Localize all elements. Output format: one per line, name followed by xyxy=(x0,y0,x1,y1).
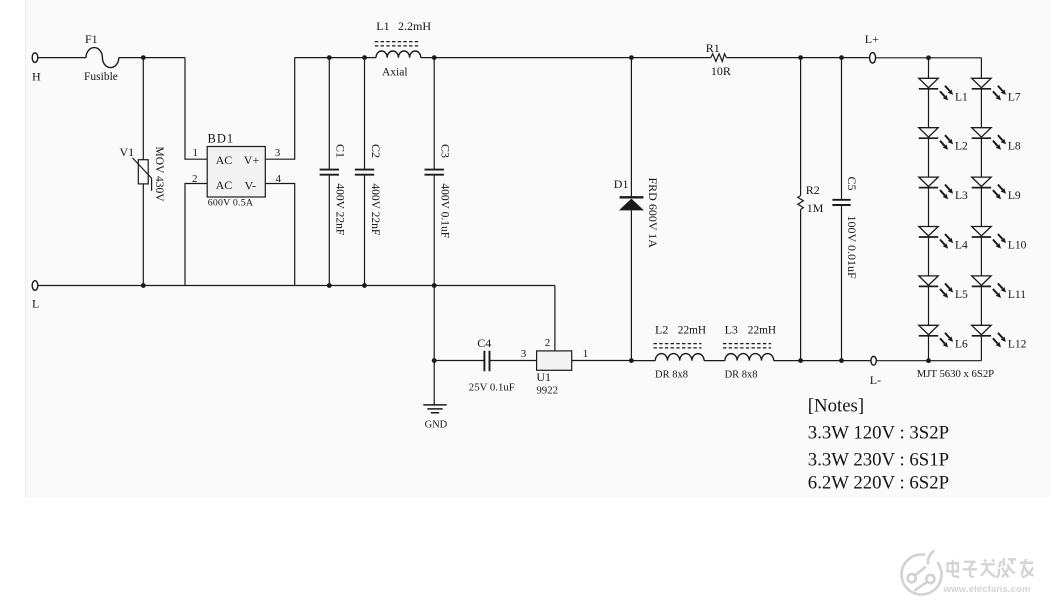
svg-text:L1: L1 xyxy=(376,19,389,33)
terminal L- xyxy=(871,356,876,365)
svg-text:L2: L2 xyxy=(955,141,968,153)
wire BD1 pin2 xyxy=(185,184,207,286)
wire U1 pin1 to mid rail xyxy=(572,360,632,362)
svg-text:22mH: 22mH xyxy=(748,325,776,337)
svg-text:F1: F1 xyxy=(85,32,98,46)
wire C3 junction down to GND rail xyxy=(433,286,435,405)
svg-text:10R: 10R xyxy=(711,64,731,78)
L1 dashed marks xyxy=(375,42,421,46)
wire L2 to L3 xyxy=(704,360,725,362)
svg-text:L4: L4 xyxy=(955,240,968,252)
watermark text you xyxy=(1020,559,1034,578)
junction dot R2 top xyxy=(798,55,803,60)
varistor V1 diagonal xyxy=(133,158,152,191)
svg-text:6.2W 220V : 6S2P: 6.2W 220V : 6S2P xyxy=(808,473,949,494)
top rail mid xyxy=(421,57,711,59)
svg-text:L10: L10 xyxy=(1008,240,1027,252)
terminal H xyxy=(32,53,38,63)
watermark logo elecfans xyxy=(902,551,942,595)
LED L10 xyxy=(972,227,1006,249)
U1 pin2 vertical wire xyxy=(554,286,556,351)
terminal L (neutral) xyxy=(32,281,38,291)
LED L1 xyxy=(919,78,953,100)
LED L2 xyxy=(919,128,953,150)
capacitor C2 plates xyxy=(355,170,374,175)
svg-text:L+: L+ xyxy=(865,32,879,46)
bridge rectifier BD1 body xyxy=(207,147,265,198)
capacitor C5 wire bottom xyxy=(841,206,843,361)
svg-text:D1: D1 xyxy=(614,177,629,191)
svg-text:400V 0.1uF: 400V 0.1uF xyxy=(439,183,451,238)
wire L+ to LED columns xyxy=(876,57,982,59)
LED column 2 wire xyxy=(980,58,982,361)
capacitor C1 wires xyxy=(328,58,330,286)
svg-text:3.3W 230V : 6S1P: 3.3W 230V : 6S1P xyxy=(808,450,949,471)
svg-text:L3: L3 xyxy=(725,323,738,337)
capacitor C5 wire top xyxy=(841,58,843,199)
svg-text:3.3W 120V : 3S2P: 3.3W 120V : 3S2P xyxy=(808,423,949,444)
svg-text:Axial: Axial xyxy=(382,67,408,79)
diode D1 wire bottom xyxy=(630,210,632,360)
svg-text:22mH: 22mH xyxy=(678,325,706,337)
wire V1 top xyxy=(142,58,144,160)
resistor R1 xyxy=(711,54,727,62)
LED L12 xyxy=(972,325,1006,347)
junction dot D1 top xyxy=(629,55,634,60)
capacitor C3 plates xyxy=(425,170,444,175)
ground symbol xyxy=(423,405,446,413)
inductor L1 xyxy=(376,51,421,58)
svg-text:FRD 600V 1A: FRD 600V 1A xyxy=(646,178,660,249)
svg-text:R2: R2 xyxy=(806,183,820,197)
wire down to BD1 pin1 xyxy=(185,58,207,160)
LED L8 xyxy=(972,128,1006,150)
junction dot C3 top xyxy=(432,55,437,60)
svg-text:4: 4 xyxy=(276,173,282,185)
svg-text:L8: L8 xyxy=(1008,141,1021,153)
resistor R2 wire bottom xyxy=(800,210,802,361)
svg-text:C1: C1 xyxy=(334,144,348,158)
svg-text:2.2mH: 2.2mH xyxy=(398,19,431,33)
L3 dashed marks xyxy=(723,344,771,348)
wire BD1 pin3 to top rail xyxy=(265,58,294,160)
resistor R2 zigzag xyxy=(798,196,804,210)
LED L4 xyxy=(919,227,953,249)
LED L9 xyxy=(972,177,1006,199)
junction dot C3 bottom rail xyxy=(432,283,437,288)
watermark text dian (electron) xyxy=(948,558,1034,578)
svg-text:L9: L9 xyxy=(1008,190,1021,202)
left rail bottom xyxy=(38,285,555,287)
svg-text:V-: V- xyxy=(245,178,257,192)
capacitor C3 wires xyxy=(433,58,435,286)
junction dot C2 top xyxy=(362,55,367,60)
top rail right xyxy=(726,57,869,59)
resistor R2 wire top xyxy=(800,58,802,196)
svg-text:L5: L5 xyxy=(955,289,968,301)
svg-text:L2: L2 xyxy=(655,323,668,337)
svg-text:C2: C2 xyxy=(369,144,383,158)
LED L3 xyxy=(919,177,953,199)
svg-text:AC: AC xyxy=(216,178,233,192)
fuse F1 xyxy=(86,48,119,68)
watermark text shao xyxy=(997,558,1017,578)
svg-text:L: L xyxy=(32,297,39,311)
svg-text:[Notes]: [Notes] xyxy=(808,396,864,417)
svg-text:C3: C3 xyxy=(439,144,453,158)
LED L5 xyxy=(919,276,953,298)
svg-text:AC: AC xyxy=(216,153,233,167)
inductor L3 xyxy=(725,354,774,361)
svg-text:L11: L11 xyxy=(1008,289,1026,301)
junction dot C1 top xyxy=(327,55,332,60)
wire C4 to U1 pin3 xyxy=(490,360,536,362)
notes block xyxy=(808,396,949,494)
watermark text zi xyxy=(963,562,977,577)
capacitor C1 plates xyxy=(320,170,339,175)
svg-text:25V 0.1uF: 25V 0.1uF xyxy=(469,382,515,394)
svg-text:L-: L- xyxy=(870,373,881,387)
svg-text:L7: L7 xyxy=(1008,91,1021,103)
svg-text:3: 3 xyxy=(275,147,281,159)
mid rail right xyxy=(774,360,871,362)
svg-text:U1: U1 xyxy=(536,370,551,384)
svg-text:V+: V+ xyxy=(244,153,260,167)
svg-text:www.elecfans.com: www.elecfans.com xyxy=(943,584,1031,595)
junction dot LED column1 bottom xyxy=(926,358,931,363)
svg-text:H: H xyxy=(32,70,41,84)
svg-text:MOV 430V: MOV 430V xyxy=(153,147,165,203)
varistor V1 body xyxy=(138,160,148,184)
svg-text:BD1: BD1 xyxy=(208,132,235,146)
watermark text fa xyxy=(981,559,996,577)
wire fuse to BD1 corner xyxy=(119,57,185,59)
svg-text:C4: C4 xyxy=(477,336,491,350)
capacitor C5 plates xyxy=(832,200,850,205)
junction dot C5 bottom xyxy=(839,358,844,363)
svg-text:Fusible: Fusible xyxy=(84,71,118,83)
svg-text:DR 8x8: DR 8x8 xyxy=(725,370,758,381)
svg-text:2: 2 xyxy=(545,337,551,349)
wire H to fuse xyxy=(38,57,86,59)
svg-text:1: 1 xyxy=(193,147,199,159)
svg-text:MJT 5630 x 6S2P: MJT 5630 x 6S2P xyxy=(917,368,994,380)
mid rail to L2 xyxy=(631,360,655,362)
svg-text:2: 2 xyxy=(192,173,198,185)
svg-text:400V 22nF: 400V 22nF xyxy=(334,183,346,235)
LED L6 xyxy=(919,325,953,347)
LED L11 xyxy=(972,276,1006,298)
LED column 1 wire xyxy=(928,58,930,361)
svg-text:L12: L12 xyxy=(1008,338,1027,350)
junction dot V1 bottom rail xyxy=(141,283,146,288)
svg-text:L3: L3 xyxy=(955,190,968,202)
wire GND rail to C4 xyxy=(434,360,483,362)
IC U1 body xyxy=(537,351,572,370)
svg-text:R1: R1 xyxy=(706,41,720,55)
svg-text:L1: L1 xyxy=(955,91,968,103)
svg-text:9922: 9922 xyxy=(536,385,558,397)
inductor L2 xyxy=(655,354,704,361)
svg-text:1: 1 xyxy=(583,348,589,360)
junction dot U1 pin1 / D1 bottom xyxy=(629,358,634,363)
svg-text:GND: GND xyxy=(425,420,448,431)
wire V1 bottom xyxy=(142,184,144,286)
wire L- to LED bottoms xyxy=(876,360,981,362)
svg-text:L6: L6 xyxy=(955,338,968,350)
capacitor C4 plates xyxy=(484,351,489,371)
capacitor C2 wires xyxy=(364,58,366,286)
diode D1 wire top xyxy=(630,58,632,197)
svg-text:100V 0.01uF: 100V 0.01uF xyxy=(845,216,859,279)
junction dot fuse/V1 xyxy=(141,55,146,60)
svg-text:1M: 1M xyxy=(807,201,824,215)
junction dot C2 bottom xyxy=(362,283,367,288)
wire BD1 pin4 down xyxy=(265,184,294,286)
svg-text:400V 22nF: 400V 22nF xyxy=(369,183,381,235)
diode D1 triangle xyxy=(619,199,644,211)
junction dot R2 bottom xyxy=(798,358,803,363)
L2 dashed marks xyxy=(654,344,702,348)
junction dot C5 top xyxy=(839,55,844,60)
top rail left xyxy=(295,57,376,59)
terminal L+ xyxy=(870,53,876,63)
svg-text:3: 3 xyxy=(521,348,527,360)
svg-text:DR 8x8: DR 8x8 xyxy=(655,370,688,381)
diode D1 cathode bar xyxy=(620,196,644,198)
svg-text:C5: C5 xyxy=(845,177,859,191)
svg-text:V1: V1 xyxy=(120,145,135,159)
junction dot GND rail xyxy=(432,358,437,363)
LED L7 xyxy=(972,78,1006,100)
svg-text:600V 0.5A: 600V 0.5A xyxy=(208,197,254,208)
junction dot C1 bottom xyxy=(327,283,332,288)
junction dot LED column1 top xyxy=(926,55,931,60)
